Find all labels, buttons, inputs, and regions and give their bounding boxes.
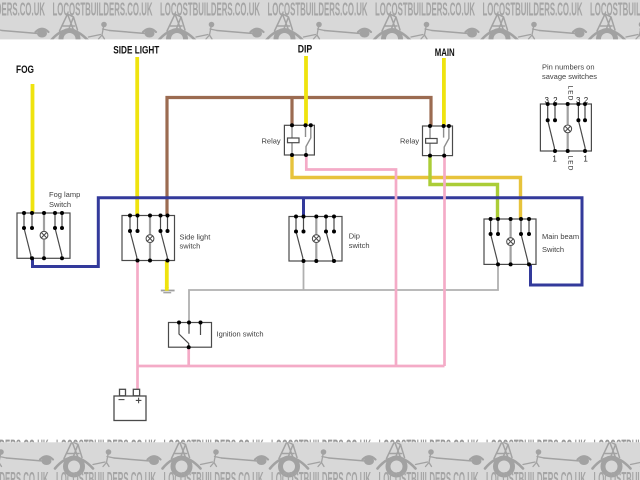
relay U1 (dip)	[284, 125, 314, 155]
bottom watermark car sketches	[0, 442, 640, 476]
wire yellow: tip over ground bar	[165, 287, 169, 291]
svg-text:LOCOSTBUILDERS.CO.UK: LOCOSTBUILDERS.CO.UK	[590, 0, 640, 20]
svg-text:LOCOSTBUILDERS.CO.UK: LOCOSTBUILDERS.CO.UK	[160, 0, 260, 20]
side light switch	[122, 216, 175, 261]
svg-text:LOCOSTBUILDERS.CO.UK: LOCOSTBUILDERS.CO.UK	[164, 469, 264, 480]
svg-text:Switch: Switch	[49, 200, 71, 209]
svg-text:1: 1	[552, 155, 557, 164]
svg-text:Pin numbers on: Pin numbers on	[542, 62, 595, 71]
ignition switch	[169, 323, 212, 348]
svg-text:DIP: DIP	[298, 44, 313, 56]
battery minus mark	[119, 399, 125, 401]
svg-text:FOG: FOG	[16, 64, 34, 76]
wire yellow: DIP feed to relay	[304, 56, 308, 125]
wire pink: main relay switched pin to bus	[443, 156, 446, 366]
svg-text:Dip: Dip	[349, 231, 360, 240]
svg-text:LOCOSTBUILDERS.CO.UK: LOCOSTBUILDERS.CO.UK	[53, 0, 153, 20]
top watermark band background	[0, 0, 640, 39]
svg-text:3: 3	[544, 96, 549, 105]
wire pink: side light switch pin1 to battery	[136, 261, 139, 390]
svg-text:switch: switch	[180, 241, 201, 250]
svg-text:savage switches: savage switches	[542, 72, 597, 81]
wire grey: main beam pin1 down, across, down to ignition switch	[189, 264, 498, 322]
relay U2 (main)	[423, 126, 453, 156]
svg-text:Ignition switch: Ignition switch	[217, 329, 264, 338]
svg-text:Fog lamp: Fog lamp	[49, 190, 80, 199]
svg-text:LOCOSTBUILDERS.CO.UK: LOCOSTBUILDERS.CO.UK	[0, 469, 49, 480]
svg-text:Relay: Relay	[262, 136, 281, 145]
ground	[161, 291, 175, 293]
wire brown: side light switch pin2 to both relay coils	[167, 98, 431, 216]
wire yellow: FOG feed	[31, 84, 35, 213]
svg-text:2: 2	[584, 96, 589, 105]
wire yellow: MAIN feed to relay	[442, 58, 446, 126]
svg-text:LOCOSTBUILDERS.CO.UK: LOCOSTBUILDERS.CO.UK	[0, 0, 45, 20]
svg-text:LED: LED	[566, 86, 573, 102]
wire yellow: side light switch to ground	[165, 261, 169, 289]
svg-text:LOCOSTBUILDERS.CO.UK: LOCOSTBUILDERS.CO.UK	[379, 469, 479, 480]
bottom watermark letter-top slivers	[0, 437, 640, 457]
battery	[114, 389, 146, 420]
savage switch pin diagram	[540, 104, 591, 151]
wire pink: bus	[138, 365, 445, 368]
svg-text:3: 3	[576, 96, 581, 105]
savage pin number labels	[544, 96, 588, 164]
fog lamp switch	[17, 213, 70, 258]
bottom watermark band background	[0, 442, 640, 480]
svg-text:2: 2	[553, 96, 558, 105]
top watermark text row	[0, 0, 640, 20]
main beam switch	[484, 219, 536, 264]
wire yellow: SIDE LIGHT feed	[135, 57, 139, 216]
wire gold: dip relay output to main beam switch pin3	[292, 156, 521, 220]
battery plus mark	[136, 398, 142, 404]
svg-text:LED: LED	[566, 156, 573, 172]
dip switch	[289, 217, 342, 262]
top watermark car sketches	[0, 14, 640, 48]
wire pink: dip relay switched pin to bus	[306, 156, 396, 367]
svg-text:1: 1	[583, 155, 588, 164]
svg-text:Relay: Relay	[400, 136, 419, 145]
svg-text:Main beam: Main beam	[542, 232, 579, 241]
svg-text:LOCOSTBUILDERS.CO.UK: LOCOSTBUILDERS.CO.UK	[56, 469, 156, 480]
svg-text:switch: switch	[349, 241, 370, 250]
svg-text:LOCOSTBUILDERS.CO.UK: LOCOSTBUILDERS.CO.UK	[594, 469, 640, 480]
svg-text:MAIN: MAIN	[435, 47, 455, 59]
svg-text:LOCOSTBUILDERS.CO.UK: LOCOSTBUILDERS.CO.UK	[483, 0, 583, 20]
svg-text:LOCOSTBUILDERS.CO.UK: LOCOSTBUILDERS.CO.UK	[271, 469, 371, 480]
wire blue: tap to dip switch pin2	[302, 198, 305, 217]
wire grey: dip switch pin1 to ignition bus	[303, 261, 305, 290]
svg-text:LOCOSTBUILDERS.CO.UK: LOCOSTBUILDERS.CO.UK	[486, 469, 586, 480]
svg-text:Side light: Side light	[180, 233, 212, 242]
bottom watermark text row	[0, 469, 640, 480]
wire pink: ignition switch to bus	[187, 347, 190, 366]
wire blue: fog switch feed bus to main beam switch	[33, 198, 583, 285]
svg-text:SIDE LIGHT: SIDE LIGHT	[113, 45, 159, 57]
svg-text:LOCOSTBUILDERS.CO.UK: LOCOSTBUILDERS.CO.UK	[375, 0, 475, 20]
svg-text:Switch: Switch	[542, 245, 564, 254]
svg-text:LOCOSTBUILDERS.CO.UK: LOCOSTBUILDERS.CO.UK	[268, 0, 368, 20]
wire green: main relay output to main beam switch pin2	[430, 156, 498, 220]
